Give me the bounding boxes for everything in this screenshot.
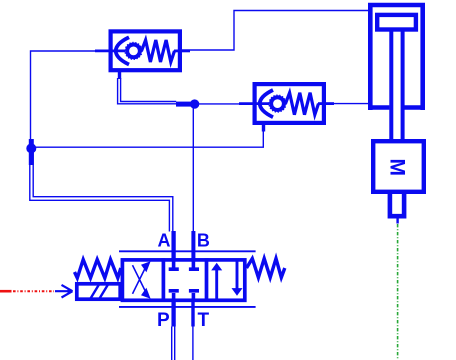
proportional 4/3 directional control valve [75,231,285,327]
svg-text:B: B [197,231,210,251]
rail top [119,250,256,252]
valve body [122,260,244,300]
position 2: closed center T-ports [169,261,199,301]
solenoid slashes [91,285,109,299]
pilot line from CV1 to junction (double line) [118,78,177,104]
mechanical position line (green dash-dot) [397,224,399,360]
proportional solenoid box [77,284,120,299]
port stub P [171,300,175,327]
port stub B [191,231,195,261]
wire: node to CV2 pilot port [36,130,263,147]
wire: CV1 outlet to cylinder cap-side port [182,11,368,51]
svg-text:T: T [198,310,210,331]
svg-text:A: A [158,231,171,251]
control signal arrow into solenoid [55,285,73,298]
cell dividers [163,258,206,302]
port stub A [171,231,175,261]
rail bottom [119,306,256,308]
wire: node to valve port A (double line) [30,152,173,232]
wire: T to tank (off bottom) [192,327,194,360]
stub below rod end [396,219,398,224]
flow arrow on pilot/B junction line [176,102,192,107]
svg-text:M: M [385,158,408,176]
red control signal line [0,290,54,293]
wire: P to pump (double line, off bottom) [172,327,175,360]
svg-text:P: P [157,310,170,331]
node N1 with flow arrow [26,139,36,165]
hydraulic cylinder (vertical, rod down) [368,5,425,139]
rod end below mass [390,194,404,216]
mass load M [373,141,424,192]
left return spring [75,260,121,279]
right return spring [247,259,285,278]
pilot-operated check valve CV1 [95,31,190,79]
wire: junction to CV2 inlet [199,103,253,105]
port stub T [191,300,194,327]
junction node J1 [190,99,199,108]
wire: junction to valve port B [192,108,194,232]
pilot-operated check valve CV2 [239,84,334,131]
wire: CV2 outlet to cylinder rod-side port [326,103,368,105]
position 1: crossed arrows [133,261,151,299]
wire: CV1 inlet line (left port to left corner, down to node) [31,51,109,144]
position 3: parallel flow arrows [211,261,242,301]
